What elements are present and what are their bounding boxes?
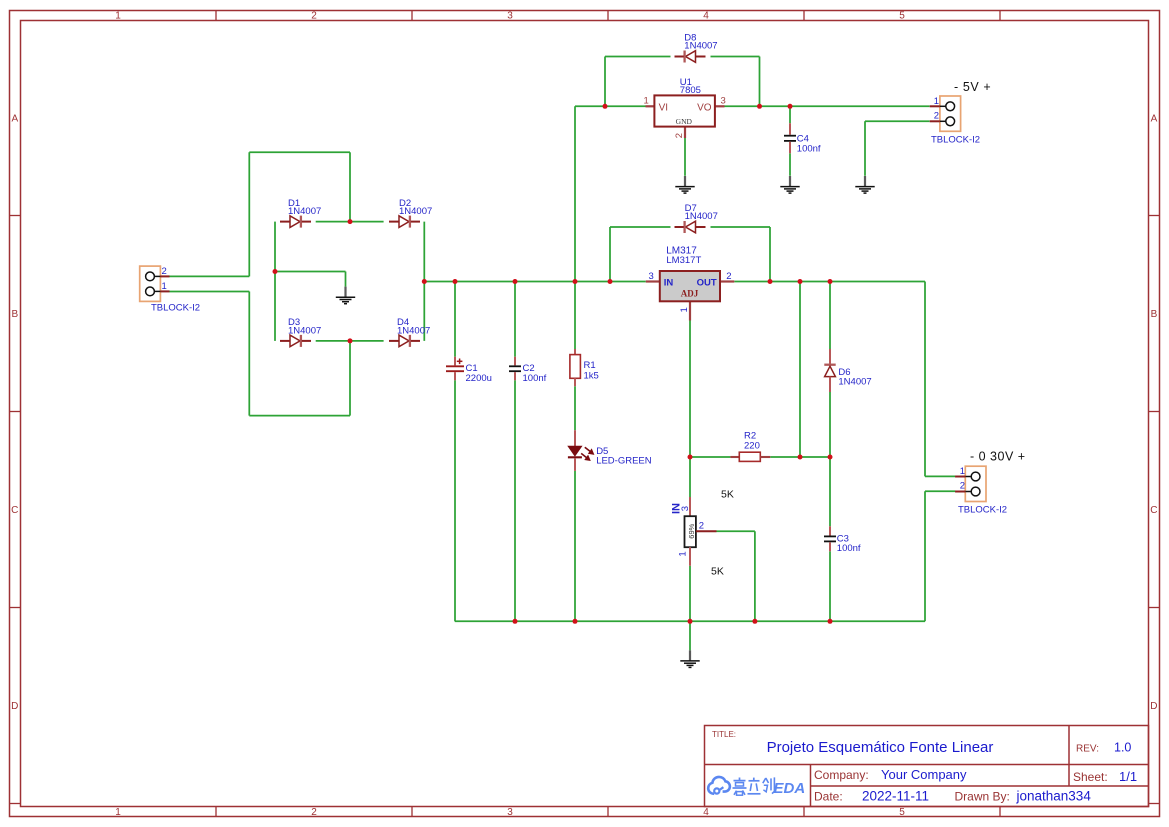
svg-text:1N4007: 1N4007 [288, 206, 321, 217]
svg-text:1N4007: 1N4007 [685, 211, 718, 222]
svg-text:3: 3 [649, 271, 654, 282]
label C2 [523, 363, 547, 384]
EasyEDA logo text 嘉立创EDA [733, 777, 806, 797]
svg-text:4: 4 [703, 807, 709, 818]
label D8 [684, 33, 717, 52]
wire LM317 adj down [689, 321, 691, 458]
svg-text:Company:: Company: [814, 768, 869, 782]
svg-text:1: 1 [115, 10, 121, 21]
label D3 [288, 317, 321, 336]
wire main rail right [734, 281, 925, 283]
diode D7 1N4007 [675, 221, 706, 233]
svg-text:1N4007: 1N4007 [838, 376, 871, 387]
svg-text:2: 2 [311, 807, 317, 818]
svg-text:3: 3 [721, 95, 726, 106]
svg-text:GND: GND [676, 117, 693, 126]
ground (5V connector pin2) [855, 176, 874, 193]
svg-text:100nf: 100nf [523, 373, 547, 384]
svg-text:ADJ: ADJ [681, 289, 699, 299]
label D5 [596, 446, 652, 467]
svg-text:A: A [1151, 113, 1158, 124]
wire D8 right branch [711, 57, 760, 107]
wire R1 to LED [574, 386, 576, 430]
wire C3 top [829, 457, 831, 526]
svg-text:VI: VI [659, 102, 668, 113]
title block texts [712, 730, 1137, 804]
LED D5 LED-GREEN [568, 430, 594, 471]
svg-text:1/1: 1/1 [1119, 769, 1137, 784]
svg-text:1: 1 [960, 466, 965, 477]
svg-text:TBLOCK-I2: TBLOCK-I2 [151, 302, 200, 313]
svg-text:1: 1 [679, 307, 690, 312]
capacitor C1 2200u [446, 357, 464, 381]
wire D1 to D2 row [316, 221, 384, 223]
wire 7805 output rail [725, 105, 930, 107]
label C4 [797, 133, 821, 154]
wire D3 to D4 row [316, 340, 384, 342]
svg-text:Drawn By:: Drawn By: [955, 790, 1010, 804]
wire pot gnd stub [689, 621, 691, 650]
ground (bridge mid) [336, 287, 355, 304]
svg-text:1: 1 [934, 96, 939, 107]
wire bridge left vertical [274, 222, 276, 341]
svg-text:2200u: 2200u [466, 373, 492, 384]
wire pot wiper [717, 531, 755, 621]
svg-text:2: 2 [311, 10, 317, 21]
svg-text:1.0: 1.0 [1114, 741, 1131, 755]
wire input pin2 to bridge top [170, 152, 351, 276]
svg-text:5: 5 [899, 807, 905, 818]
ground (7805 gnd) [675, 176, 694, 193]
svg-text:LM317T: LM317T [666, 255, 701, 266]
wire vertical x575 to 7805 [574, 106, 576, 281]
wire C1 bottom [454, 380, 456, 621]
svg-text:TBLOCK-I2: TBLOCK-I2 [931, 135, 980, 146]
svg-text:R1: R1 [584, 360, 596, 371]
wire C4 top [789, 106, 791, 123]
svg-text:REV:: REV: [1076, 744, 1099, 755]
wire bottom rail to pin2 [925, 491, 955, 621]
regulator U1 7805 [646, 95, 725, 138]
regulator U2 LM317 [646, 271, 735, 321]
wire D7 right branch [711, 227, 771, 282]
wire main rail left [424, 281, 646, 283]
svg-text:1k5: 1k5 [584, 371, 599, 382]
wire C1 top [454, 282, 456, 357]
7805 pin numbers and pin names [644, 95, 726, 138]
wire x575 rail to R1 [574, 282, 576, 350]
potentiometer RV 5K (IN) [685, 497, 717, 566]
EasyEDA logo cloud [708, 777, 730, 794]
label C3 [837, 534, 861, 555]
svg-text:5K: 5K [711, 566, 724, 578]
svg-text:100nf: 100nf [837, 543, 861, 554]
svg-text:2: 2 [699, 521, 704, 532]
wire LED to bottom rail [574, 471, 576, 621]
label D1 [288, 198, 321, 217]
svg-text:2: 2 [960, 481, 965, 492]
connector 5V output TBLOCK-I2 [930, 96, 961, 131]
ground (C4) [780, 176, 799, 193]
resistor R1 1k5 [570, 349, 581, 386]
wire R2 right [770, 456, 830, 458]
wire D6 bottom [829, 392, 831, 457]
svg-text:5: 5 [899, 10, 905, 21]
capacitor C3 100nf [824, 526, 836, 551]
svg-text:C: C [1150, 505, 1157, 516]
svg-text:VO: VO [697, 102, 712, 113]
svg-text:2: 2 [934, 111, 939, 122]
svg-text:1: 1 [678, 551, 689, 556]
svg-text:- 0 30V +: - 0 30V + [970, 450, 1026, 464]
svg-text:Your Company: Your Company [881, 767, 967, 782]
diode D4 1N4007 [389, 335, 420, 347]
svg-text:7805: 7805 [680, 85, 701, 96]
svg-text:IN: IN [664, 278, 674, 289]
svg-text:IN: IN [671, 503, 683, 514]
svg-text:2: 2 [674, 133, 685, 138]
svg-text:TITLE:: TITLE: [712, 730, 736, 739]
svg-text:3: 3 [507, 10, 513, 21]
label U1 [680, 77, 701, 96]
label D7 [685, 203, 718, 222]
svg-text:1N4007: 1N4007 [684, 41, 717, 52]
svg-text:2022-11-11: 2022-11-11 [862, 789, 929, 804]
wire 7805 gnd pin [684, 138, 686, 176]
wire pot pin1 [689, 566, 691, 622]
svg-text:D: D [1150, 701, 1157, 712]
wire 5V pin2 to ground [865, 121, 930, 176]
svg-text:100nf: 100nf [797, 144, 821, 155]
svg-text:Projeto Esquemático Fonte Line: Projeto Esquemático Fonte Linear [767, 739, 994, 756]
connector input TBLOCK-I2 [140, 266, 170, 301]
diode D3 1N4007 [280, 335, 311, 347]
label D4 [397, 317, 430, 336]
LM317 pin numbers and pin names [649, 271, 732, 313]
svg-text:1: 1 [162, 281, 167, 292]
diode D6 1N4007 [824, 349, 835, 392]
svg-text:69%: 69% [687, 523, 696, 538]
label R1 [584, 360, 599, 382]
pin numbers input connector [162, 266, 167, 292]
label D6 [838, 367, 871, 387]
wire R2 left [690, 456, 730, 458]
diode D2 1N4007 [389, 216, 420, 228]
diode D8 1N4007 [675, 51, 706, 63]
svg-text:1N4007: 1N4007 [397, 325, 430, 336]
svg-text:TBLOCK-I2: TBLOCK-I2 [958, 505, 1007, 516]
potentiometer labels [671, 503, 704, 557]
label D2 [399, 198, 432, 217]
wire C3 bottom [829, 551, 831, 621]
svg-text:B: B [11, 309, 18, 320]
wire input pin1 to bridge bottom [170, 292, 351, 416]
wire vertical x800 [799, 282, 801, 458]
svg-text:Sheet:: Sheet: [1073, 770, 1108, 784]
svg-text:OUT: OUT [697, 278, 717, 289]
svg-text:LED-GREEN: LED-GREEN [596, 455, 652, 466]
wire bridge mid to ground [275, 272, 346, 287]
title block frame [705, 726, 1149, 807]
label R2 [744, 430, 760, 451]
wire C4 to ground [789, 153, 791, 176]
ground (pot bottom) [680, 650, 699, 667]
wire C2 top [514, 282, 516, 357]
svg-text:Date:: Date: [814, 790, 843, 804]
wire bridge right vertical [423, 222, 425, 341]
svg-text:1N4007: 1N4007 [288, 325, 321, 336]
wire bottom rail [455, 620, 925, 622]
svg-text:C: C [11, 505, 18, 516]
svg-text:B: B [1151, 309, 1158, 320]
svg-text:1: 1 [115, 807, 121, 818]
svg-text:220: 220 [744, 441, 760, 452]
diode D1 1N4007 [280, 216, 311, 228]
wire D7 left branch [610, 227, 671, 282]
wire C2 bottom [514, 380, 516, 621]
svg-text:jonathan334: jonathan334 [1016, 789, 1092, 804]
wire D6 top [829, 282, 831, 350]
svg-text:- 5V +: - 5V + [954, 80, 991, 94]
svg-text:2: 2 [726, 271, 731, 282]
svg-text:3: 3 [507, 807, 513, 818]
capacitor C4 100nf [784, 123, 796, 153]
svg-text:2: 2 [162, 266, 167, 277]
resistor R2 220 [730, 452, 770, 461]
svg-text:1: 1 [644, 95, 649, 106]
svg-text:4: 4 [703, 10, 709, 21]
connector 0-30V output TBLOCK-I2 [955, 466, 986, 501]
label LM317 [666, 246, 701, 266]
svg-text:D: D [11, 701, 18, 712]
pin numbers 5V connector [934, 96, 939, 122]
wire pot pin3 [689, 457, 691, 497]
wire output rail to pin1 [925, 282, 955, 477]
pin numbers 30V connector [960, 466, 965, 492]
wire 7805 input rail [575, 105, 646, 107]
wire D8 left branch [605, 57, 671, 107]
svg-text:5K: 5K [721, 489, 734, 501]
capacitor C2 100nf [509, 357, 521, 381]
svg-text:A: A [11, 113, 18, 124]
svg-text:1N4007: 1N4007 [399, 206, 432, 217]
svg-text:EDA: EDA [774, 780, 806, 797]
label C1 [466, 363, 492, 384]
